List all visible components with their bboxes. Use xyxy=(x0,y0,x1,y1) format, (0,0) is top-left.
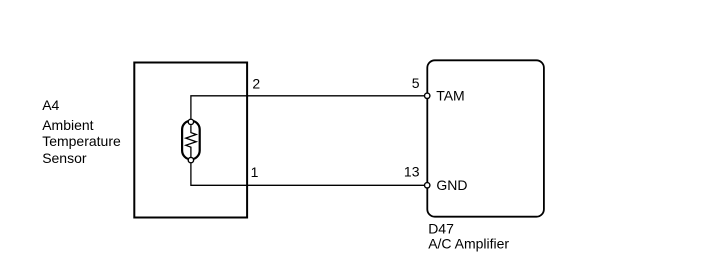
svg-text:Temperature: Temperature xyxy=(42,133,121,149)
svg-text:Sensor: Sensor xyxy=(42,150,87,166)
svg-text:Ambient: Ambient xyxy=(42,117,93,133)
svg-text:GND: GND xyxy=(436,177,467,193)
svg-text:TAM: TAM xyxy=(436,88,465,104)
svg-text:A4: A4 xyxy=(42,97,59,113)
svg-text:A/C Amplifier: A/C Amplifier xyxy=(428,236,509,252)
svg-text:D47: D47 xyxy=(428,221,454,237)
svg-text:2: 2 xyxy=(252,75,260,91)
svg-text:13: 13 xyxy=(404,164,420,180)
svg-text:1: 1 xyxy=(251,164,259,180)
svg-text:5: 5 xyxy=(412,75,420,91)
